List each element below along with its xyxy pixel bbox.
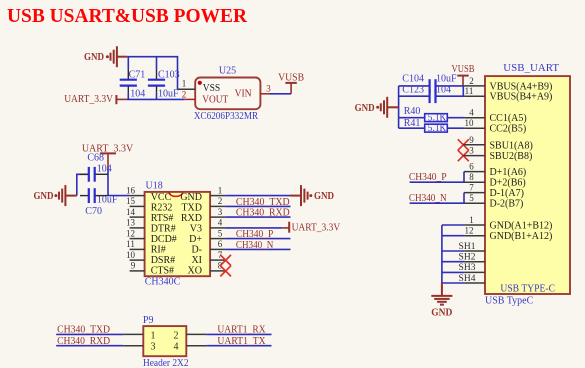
svg-text:RXD: RXD <box>181 213 202 224</box>
svg-text:CH340_RXD: CH340_RXD <box>57 336 110 347</box>
svg-text:GND: GND <box>34 191 54 202</box>
power port UART_3.3V (left) <box>64 94 127 105</box>
wire GND rail bottom <box>442 225 465 283</box>
svg-text:D+: D+ <box>189 234 202 245</box>
svg-text:9: 9 <box>469 135 474 145</box>
svg-text:D-1(A7): D-1(A7) <box>490 188 524 199</box>
svg-text:USB TYPE-C: USB TYPE-C <box>500 283 555 295</box>
svg-text:UART_3.3V: UART_3.3V <box>64 94 114 105</box>
svg-text:C123: C123 <box>402 85 424 96</box>
power port UART_3.3V (right of U18) <box>282 222 341 234</box>
no-ERC X pin9 <box>458 139 469 150</box>
no-ERC X pin8 <box>220 266 231 277</box>
resistor R41 <box>399 118 465 134</box>
wire pin6 D- <box>225 248 290 250</box>
svg-text:CH340_TXD: CH340_TXD <box>57 325 110 336</box>
svg-text:XC6206P332MR: XC6206P332MR <box>194 111 259 122</box>
svg-text:4: 4 <box>174 342 179 353</box>
capacitor C103 <box>148 57 180 100</box>
connector USB_UART USB TYPE-C body <box>485 62 570 306</box>
capacitor C70 <box>80 188 118 217</box>
IC U18 CH340C body <box>145 181 211 288</box>
wire UART1_TX <box>206 345 271 347</box>
USB pin stubs left <box>463 86 485 283</box>
wire VBUS tie <box>462 86 464 96</box>
svg-text:GND(A1+B12): GND(A1+B12) <box>490 221 553 232</box>
svg-text:14: 14 <box>126 207 136 217</box>
wire pin5 D+ <box>225 238 290 240</box>
svg-text:R41: R41 <box>404 118 421 129</box>
svg-text:USB TypeC: USB TypeC <box>485 296 534 307</box>
svg-text:C103: C103 <box>158 70 180 81</box>
svg-text:3: 3 <box>469 146 474 156</box>
svg-text:GND: GND <box>180 192 202 203</box>
svg-text:R40: R40 <box>404 106 421 117</box>
svg-text:SH1: SH1 <box>459 242 476 252</box>
svg-text:SH3: SH3 <box>459 263 476 273</box>
svg-text:UART1_RX: UART1_RX <box>217 325 266 336</box>
svg-text:CH340_TXD: CH340_TXD <box>236 197 290 208</box>
svg-text:1: 1 <box>151 330 156 341</box>
no-ERC X pin7 <box>220 255 231 266</box>
svg-text:13: 13 <box>126 218 136 228</box>
wire UART1_RX <box>206 333 271 335</box>
svg-text:XO: XO <box>188 265 202 276</box>
wire to VCC pin16 <box>108 195 130 197</box>
svg-text:D+1(A6): D+1(A6) <box>490 167 527 178</box>
svg-text:D-2(B7): D-2(B7) <box>490 199 524 210</box>
ground GND (top-left power ground) <box>106 46 127 67</box>
capacitor C123 <box>399 85 465 103</box>
svg-text:10uF: 10uF <box>158 88 179 99</box>
svg-text:GND(B1+A12): GND(B1+A12) <box>490 231 553 242</box>
svg-text:TXD: TXD <box>181 203 202 214</box>
svg-text:10: 10 <box>126 250 136 260</box>
svg-text:12: 12 <box>126 228 135 238</box>
svg-text:GND: GND <box>431 307 452 318</box>
svg-text:CH340C: CH340C <box>145 277 181 288</box>
U18 right pin stubs 1..8 <box>210 196 225 271</box>
svg-text:V3: V3 <box>190 224 202 235</box>
svg-text:CC1(A5): CC1(A5) <box>490 113 527 124</box>
svg-text:SH2: SH2 <box>459 253 476 263</box>
svg-text:RTS#: RTS# <box>151 213 174 224</box>
svg-text:SBU1(A8): SBU1(A8) <box>490 140 533 151</box>
svg-text:VBUS(B4+A9): VBUS(B4+A9) <box>490 92 553 103</box>
svg-text:CH340_N: CH340_N <box>236 240 273 251</box>
svg-text:2: 2 <box>182 90 187 100</box>
svg-text:XI: XI <box>191 255 202 266</box>
svg-text:GND: GND <box>314 191 334 202</box>
svg-text:8: 8 <box>218 261 223 271</box>
wire pin2 TXD <box>225 205 290 207</box>
svg-text:104: 104 <box>130 88 145 99</box>
svg-text:C104: C104 <box>402 73 424 84</box>
power port UART_3.3V (above C68) <box>82 144 134 168</box>
svg-text:VCC: VCC <box>151 192 172 203</box>
svg-text:7: 7 <box>469 183 474 193</box>
svg-text:12: 12 <box>465 226 474 236</box>
svg-text:U18: U18 <box>146 181 163 192</box>
svg-text:16: 16 <box>126 185 136 195</box>
svg-text:3: 3 <box>266 84 271 94</box>
wire pin3 to VUSB <box>270 93 291 95</box>
ground GND (left of USB caps) <box>376 97 398 118</box>
svg-text:15: 15 <box>126 196 136 206</box>
svg-text:CH340_P: CH340_P <box>236 229 274 240</box>
svg-text:2: 2 <box>218 196 223 206</box>
wire right rail of caps <box>107 168 109 196</box>
svg-text:VOUT: VOUT <box>202 94 229 105</box>
wire pin1 to GND <box>225 195 290 197</box>
ground GND (right of U18) <box>291 185 313 206</box>
svg-text:DTR#: DTR# <box>151 224 176 235</box>
wire CH340_RXD to P9 <box>56 345 123 347</box>
svg-text:5.1K: 5.1K <box>428 113 447 124</box>
svg-text:104: 104 <box>97 164 112 175</box>
svg-text:5.1K: 5.1K <box>428 123 447 134</box>
svg-text:DSR#: DSR# <box>151 255 175 266</box>
svg-text:CH340_RXD: CH340_RXD <box>236 208 290 219</box>
resistor R40 <box>399 106 465 123</box>
svg-text:3: 3 <box>218 207 223 217</box>
svg-text:C70: C70 <box>85 206 102 217</box>
svg-text:5: 5 <box>469 193 474 203</box>
svg-text:6: 6 <box>218 239 223 249</box>
svg-text:5: 5 <box>218 228 223 238</box>
svg-text:USB USART&USB POWER: USB USART&USB POWER <box>7 5 248 27</box>
connector P9 Header 2X2 <box>143 315 189 368</box>
svg-text:10uF: 10uF <box>436 73 457 84</box>
USB pin names inside <box>490 81 553 242</box>
op-amp U25 regulator XC6206P332MR <box>194 65 261 121</box>
svg-text:VSS: VSS <box>203 83 221 94</box>
svg-text:11: 11 <box>126 239 135 249</box>
svg-text:SH4: SH4 <box>459 274 476 284</box>
svg-text:Header 2X2: Header 2X2 <box>143 358 189 368</box>
svg-text:4: 4 <box>469 108 474 118</box>
svg-text:RI#: RI# <box>151 244 166 255</box>
wire UART_3.3V to VOUT <box>127 98 184 100</box>
wire CH340_N to D- pins <box>410 193 464 204</box>
svg-text:3: 3 <box>151 342 156 353</box>
U18 left pin names <box>151 192 177 276</box>
U18 left pin stubs 16..9 <box>130 196 145 271</box>
pin 2 U25 <box>184 98 195 100</box>
wire GND top rail <box>127 57 177 89</box>
wire pin3 RXD <box>225 216 290 218</box>
svg-text:DCD#: DCD# <box>151 234 177 245</box>
svg-text:9: 9 <box>131 261 136 271</box>
svg-text:4: 4 <box>218 218 223 228</box>
U18 right pin names <box>180 192 202 276</box>
svg-text:VUSB: VUSB <box>278 73 304 84</box>
svg-text:1: 1 <box>182 78 187 88</box>
pin 1 U25 <box>178 88 196 90</box>
power port VUSB (USB side) <box>452 64 475 86</box>
wire pin4 V3 <box>225 227 282 229</box>
ground GND (earth, USB bottom) <box>431 283 452 305</box>
svg-text:104: 104 <box>436 85 451 96</box>
svg-text:C71: C71 <box>129 70 146 81</box>
svg-text:P9: P9 <box>143 315 154 326</box>
wire left rail to GND corner <box>77 174 89 195</box>
svg-text:10: 10 <box>465 118 475 128</box>
wire CH340_P to D+ pins <box>410 172 464 183</box>
svg-text:1: 1 <box>218 185 223 195</box>
svg-text:VIN: VIN <box>235 89 252 100</box>
power port VUSB <box>278 73 304 94</box>
svg-text:CH340_P: CH340_P <box>409 172 447 183</box>
svg-text:8: 8 <box>469 172 474 182</box>
svg-text:UART1_TX: UART1_TX <box>217 336 266 347</box>
svg-text:SBU2(B8): SBU2(B8) <box>490 151 533 162</box>
svg-text:C68: C68 <box>87 153 104 164</box>
svg-text:1: 1 <box>469 215 474 225</box>
svg-text:D+2(B6): D+2(B6) <box>490 178 526 189</box>
svg-text:2: 2 <box>469 76 474 86</box>
svg-text:UART_3.3V: UART_3.3V <box>292 223 341 234</box>
capacitor C68 <box>80 153 112 182</box>
ground GND (mid-left) <box>54 185 76 206</box>
svg-text:D-: D- <box>191 244 202 255</box>
capacitor C71 <box>120 57 146 100</box>
svg-text:R232: R232 <box>151 203 173 214</box>
svg-text:GND: GND <box>84 52 104 63</box>
USB pin numbers <box>459 76 476 284</box>
svg-text:CC2(B5): CC2(B5) <box>490 124 527 135</box>
pin 3 U25 <box>260 93 272 95</box>
no-ERC X pin3 <box>458 150 469 161</box>
capacitor C104 <box>399 73 465 92</box>
svg-text:11: 11 <box>465 86 474 96</box>
P9 pin stubs <box>123 334 206 345</box>
wire left rail <box>398 86 400 128</box>
svg-text:U25: U25 <box>219 65 236 76</box>
svg-text:7: 7 <box>218 250 223 260</box>
svg-text:CH340_N: CH340_N <box>409 193 447 204</box>
svg-text:USB_UART: USB_UART <box>503 62 559 74</box>
svg-text:GND: GND <box>355 103 375 114</box>
svg-text:CTS#: CTS# <box>151 265 174 276</box>
svg-text:2: 2 <box>174 330 179 341</box>
wire CH340_TXD to P9 <box>56 333 123 335</box>
svg-text:6: 6 <box>469 162 474 172</box>
